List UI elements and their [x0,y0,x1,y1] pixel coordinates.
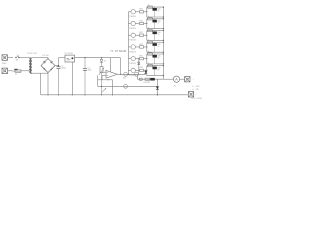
switch S1 [15,56,19,58]
zener diode D5 [100,58,103,67]
LED D2c [153,19,157,29]
junction base bus [128,74,129,75]
svg-text:D5: D5 [104,60,106,62]
wire unit top line T5 [147,53,164,55]
diode D14 dark [156,86,159,89]
junction unit column T5 [146,58,147,59]
wire opamp minus input [102,75,106,77]
junction right bus top T2 [163,18,164,19]
wire shunt vertical [156,79,158,95]
diode D13 dark [150,78,155,81]
wire unit top line T2 [147,18,164,20]
LED D6c [153,66,157,76]
resistor R2b [148,18,153,20]
svg-text:T2 BD135: T2 BD135 [129,28,136,30]
wire wiper rail [98,85,158,87]
wire T6 emitter [136,69,140,71]
svg-text:5V: 5V [158,11,160,13]
wire bridge bottom vertex to bus [47,73,49,95]
svg-text:1k: 1k [148,39,150,41]
junction right bus top T5 [163,53,164,54]
junction right bus bottom T2 [163,28,164,29]
wire unit column T4 [146,42,148,52]
resistor R4b [148,41,153,43]
junction unit column T1 [146,11,147,12]
wire dropper AC corner to bus [40,73,42,95]
svg-text:LED: LED [158,44,162,46]
resistor R13 [139,78,142,80]
svg-text:1k: 1k [148,16,150,18]
wire ammeter to terminal plus [180,78,185,80]
junction shunt on bus [157,94,158,95]
svg-text:+: + [193,79,195,81]
junction IC1 gnd on bus [72,94,73,95]
svg-text:2A: 2A [16,59,19,62]
wire unit column T5 [146,54,148,64]
wire right bus to ammeter [163,78,173,80]
connector X1 (mains L) [2,55,8,61]
svg-text:1k: 1k [148,28,150,30]
junction zener node [101,57,102,58]
wire R3a to column [144,34,147,36]
transistor T5 [131,56,135,60]
wire base bus to T1 [128,11,131,13]
wire unit bottom line T1 [147,16,164,18]
svg-text:230V: 230V [2,63,7,65]
wire T1 emitter [136,11,140,13]
svg-text:T3 BD135: T3 BD135 [129,40,136,42]
transistor T3 [131,33,135,37]
svg-text:R14 0R1: R14 0R1 [144,82,150,84]
terminal X3 plus [185,77,191,83]
wire T5 emitter [136,58,140,60]
resistor R14 [145,78,150,80]
svg-text:0R22: 0R22 [139,9,143,11]
svg-text:T1 BD135: T1 BD135 [129,16,136,18]
LED D1c [153,7,157,17]
svg-text:0R22: 0R22 [139,20,143,22]
svg-text:LED: LED [158,32,162,34]
wire unit bottom line T5 [147,63,164,65]
wire T1 secondary bottom run [32,72,48,74]
wire T4 emitter [136,46,140,48]
wire unit top line T4 [147,41,164,43]
wire opamp plus input [102,71,106,73]
svg-text:IC1 7812: IC1 7812 [65,53,74,55]
svg-text:0R22: 0R22 [139,32,143,34]
junction unit column T3 [146,35,147,36]
diode D6 vertical [138,58,141,74]
svg-text:1k: 1k [148,51,150,53]
svg-text:0R22: 0R22 [139,67,143,69]
wire feedback to bus [112,80,114,95]
ammeter P1 [173,76,179,82]
wire terminal minus to bus [41,94,189,96]
wire to IC1 input [59,57,66,59]
resistor R1b [148,6,153,8]
wire X1 to S1 [8,57,14,59]
meter M1 on output [124,72,128,76]
svg-text:LED: LED [158,9,162,11]
wire R1a to column [144,11,147,13]
wire base bus to T6 [128,69,131,71]
wire opamp output rail [117,73,145,75]
junction pot on bus [101,94,102,95]
junction right bus bottom T4 [163,52,164,53]
svg-text:1k: 1k [148,4,150,6]
wire F1 to T1 primary bottom [21,70,29,72]
resistor R5a [140,57,144,59]
svg-text:Y1 78 60HB: Y1 78 60HB [110,49,126,53]
svg-text:1k: 1k [148,63,150,65]
transistor T4 [131,45,135,49]
junction C1 on bus [58,94,59,95]
svg-text:100n: 100n [88,70,92,72]
resistor R2a [140,22,144,24]
trimmer arrow P3 [102,88,106,92]
wire shunt row [138,78,164,80]
terminal X4 minus [188,92,194,98]
svg-text:0R22: 0R22 [139,55,143,57]
junction right bus bottom T6 [163,75,164,76]
wire unit column T3 [146,31,148,41]
transformer T1 [29,57,32,74]
svg-text:ELV 030244: ELV 030244 [192,98,203,100]
wire S1 to T1 primary top [19,57,29,59]
svg-text:F1: F1 [15,74,17,76]
LED D4c [153,42,157,52]
resistor R3b [148,29,153,31]
meter M3 on wiper rail [124,84,128,88]
junction right bus bottom T1 [163,16,164,17]
potentiometer P2 [99,67,104,95]
wire T3 emitter [136,34,140,36]
junction right bus bottom T5 [163,63,164,64]
resistor R5b [148,53,153,55]
wire feedback horizontal [98,79,113,81]
wire unit column T2 [146,19,148,29]
junction unit column T6 [146,70,147,71]
junction C1 node [58,65,59,66]
svg-text:0R22: 0R22 [139,44,143,46]
wire wiper down [97,76,99,87]
fuse F1 [12,69,21,73]
resistor R4a [140,46,144,48]
wire unit top line T3 [147,30,164,32]
junction right bus top T6 [163,65,164,66]
wire unit bottom line T6 [147,75,164,77]
wire unit column T6 [146,66,148,76]
meter M2 on output [135,72,139,76]
wire X2 to F1 [8,70,13,72]
svg-text:5V: 5V [158,22,160,24]
wire unit column T1 [146,7,148,17]
junction C2 on bus [84,94,85,95]
svg-text:0...30V: 0...30V [192,86,200,88]
svg-text:5V: 5V [158,69,160,71]
junction right bus top T3 [163,30,164,31]
junction right bus bottom T3 [163,40,164,41]
LED D3c [153,31,157,41]
wire shunt row left stub [137,74,139,79]
wire T1 secondary top to bridge [32,57,48,59]
wire base bus to T5 [128,58,131,60]
bridge rectifier D1-D4 [41,59,55,73]
wire R5a to column [144,58,147,60]
resistor R3a [140,34,144,36]
LED D5c [153,54,157,64]
junction right bus top T1 [163,6,164,7]
capacitor C1 [56,66,60,95]
svg-text:A: A [175,78,178,82]
wire unit top line T6 [147,65,164,67]
svg-text:2200u: 2200u [61,68,66,70]
junction unit column T4 [146,46,147,47]
svg-text:S1: S1 [17,55,19,57]
wire unit bottom line T3 [147,39,164,41]
regulator IC1 7812 [65,55,75,62]
wire base bus to T4 [128,46,131,48]
capacitor C2 [83,58,87,95]
transistor T1 [131,10,135,14]
junction C2 node [84,57,85,58]
wire base bus to T2 [128,23,131,25]
svg-text:D1..D4: D1..D4 [43,55,49,57]
wire minus input down [101,76,103,80]
wire R2a to column [144,23,147,25]
resistor R1a [140,11,144,13]
svg-text:5V: 5V [158,34,160,36]
svg-text:R15: R15 [123,78,126,80]
wire pullup vertical [120,58,122,75]
junction unit column T2 [146,23,147,24]
svg-text:LED: LED [158,56,162,58]
wire unit top line T1 [147,6,164,8]
svg-text:LED: LED [158,20,162,22]
wire base bus vertical [127,12,129,75]
wire base bus to T3 [128,34,131,36]
wire C1 node up [58,58,60,66]
svg-text:P1: P1 [174,85,176,87]
transistor T2 [131,21,135,25]
svg-text:T1 TR 2x12: T1 TR 2x12 [27,53,38,55]
wire bridge + output to C1 node [55,65,59,67]
resistor R6a [140,69,144,71]
wire bridge top vertex stub [47,58,49,59]
junction right bus top T4 [163,42,164,43]
junction wiper rail [101,86,102,87]
diode D7 vertical [144,70,147,75]
wire unit bottom line T2 [147,28,164,30]
wire unit bottom line T4 [147,51,164,53]
wire right bus [162,7,164,79]
wire opamp supply from rail [110,58,112,73]
wire +12V rail [75,57,121,59]
wire R6a to column [144,69,147,71]
svg-text:-: - [195,94,196,96]
op-amp IC2 [106,70,117,78]
svg-text:LED: LED [158,67,162,69]
svg-text:T6 BD135: T6 BD135 [129,75,136,77]
junction pullup on output [120,74,121,75]
svg-text:T4 BD135: T4 BD135 [129,51,136,53]
junction feedback on bus [112,94,113,95]
wire R4a to column [144,46,147,48]
junction bridge bottom on bus [47,94,48,95]
svg-text:5V: 5V [158,46,160,48]
svg-text:0...2A: 0...2A [192,88,199,91]
resistor R6b [148,65,153,67]
wire IC1 gnd pin to bus [71,62,73,95]
connector X2 (mains N) [2,68,8,74]
wire T2 emitter [136,23,140,25]
svg-text:5V: 5V [158,58,160,60]
svg-text:T5 BD135: T5 BD135 [129,63,136,65]
transistor T6 [131,68,135,72]
